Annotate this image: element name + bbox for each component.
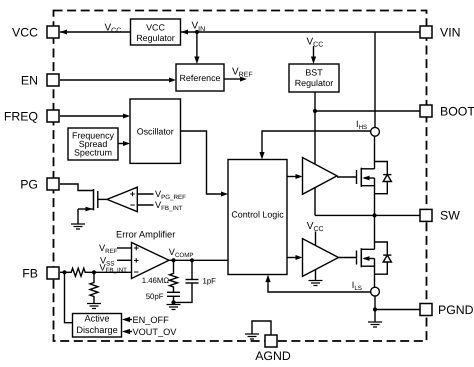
svg-text:VOUT_OV: VOUT_OV: [133, 327, 178, 337]
wire Oscillator to Control Logic: [181, 131, 222, 194]
ground compensation: [167, 305, 181, 310]
wire EN_OFF to Active Discharge: [128, 319, 132, 321]
svg-text:VCC: VCC: [12, 25, 38, 39]
capacitor 1pF: [174, 260, 199, 302]
op-amp HS gate driver: [303, 158, 338, 195]
diode D1 high-side body diode: [375, 162, 392, 194]
svg-text:+: +: [134, 255, 139, 265]
svg-text:VIN: VIN: [440, 25, 461, 39]
wire ILS to PGND: [375, 296, 420, 322]
node PGND junction: [373, 307, 377, 311]
wire VOUT_OV to Active Discharge: [128, 331, 132, 333]
pin SW: [420, 209, 460, 223]
pin BOOT: [420, 104, 474, 118]
svg-text:Spectrum: Spectrum: [74, 148, 112, 158]
wire VCC to BST Regulator: [313, 46, 315, 57]
node FB to Active Discharge junction: [62, 270, 66, 274]
svg-text:AGND: AGND: [255, 349, 291, 363]
op-amp LS gate driver: [303, 239, 339, 277]
diode D2 low-side body diode: [375, 242, 392, 274]
resistor FB lower divider: [90, 272, 98, 303]
svg-text:EN: EN: [21, 73, 38, 87]
wire BST Regulator to BOOT: [315, 92, 420, 111]
transistor Q3 PG open-drain MOSFET: [78, 189, 107, 224]
transistor Q2 low-side MOSFET: [339, 215, 375, 287]
svg-text:BOOT: BOOT: [440, 104, 474, 118]
node VIN junction: [195, 30, 199, 34]
wire VIN junction down to Reference: [196, 32, 198, 57]
wire IHS sense to Control Logic: [262, 131, 371, 153]
wire Reference output VREF: [224, 78, 240, 80]
wire FB to Active Discharge: [65, 272, 74, 322]
node SW junction: [372, 213, 376, 217]
ground power ground: [368, 322, 382, 327]
pin EN: [21, 73, 59, 87]
pin VIN: [420, 25, 461, 39]
svg-text:FB: FB: [22, 266, 38, 280]
svg-text:VCC: VCC: [146, 22, 165, 32]
svg-text:Active: Active: [84, 314, 109, 324]
svg-text:−: −: [134, 267, 139, 277]
Active Discharge block: [73, 314, 122, 338]
wire PG pin to PG MOSFET: [60, 184, 94, 191]
node BOOT junction: [313, 109, 317, 113]
BST Regulator block: [289, 64, 339, 92]
Control Logic block: [228, 160, 287, 275]
wire BOOT rail down to HS driver: [314, 111, 316, 164]
node VCOMP junction 1: [171, 258, 175, 262]
pin VCC: [12, 25, 59, 39]
wire VIN pin to VCC Regulator: [181, 31, 420, 33]
VCC Regulator U1: [131, 19, 181, 45]
svg-text:Control Logic: Control Logic: [231, 209, 284, 219]
svg-text:BST: BST: [305, 67, 323, 77]
ground FB divider: [87, 304, 101, 309]
comparator PG: [107, 187, 137, 212]
svg-text:50pF: 50pF: [146, 292, 164, 301]
Frequency Spread Spectrum block: [68, 128, 118, 160]
current sensor ILS: [371, 287, 380, 296]
wire FSS to Oscillator: [118, 143, 123, 145]
node VCOMP junction 2: [190, 258, 194, 262]
ground AGND: [245, 334, 259, 339]
svg-text:FREQ: FREQ: [4, 109, 38, 123]
node compensation ground junction: [171, 300, 175, 304]
wire PG comparator input VPG_REF: [137, 193, 153, 195]
resistor 1.46Mohm compensation: [170, 260, 178, 288]
Oscillator block: [130, 99, 181, 163]
wire EN pin to Reference: [60, 79, 169, 81]
pin AGND: [255, 335, 291, 363]
svg-text:Reference: Reference: [180, 73, 221, 83]
wire error amp output VCOMP: [169, 259, 228, 261]
wire SW node: [315, 214, 420, 216]
wire HS driver to SW rail: [314, 188, 316, 216]
Reference block: [176, 64, 224, 91]
svg-text:PG: PG: [20, 177, 38, 191]
wire ILS sense to Control Logic: [268, 282, 371, 292]
wire PG comparator input VFB_INT: [137, 204, 153, 206]
wire VIN branch down to IHS sensor: [374, 32, 376, 127]
wire LS driver to ground: [315, 270, 317, 281]
wire FB network: [60, 268, 132, 276]
svg-text:1pF: 1pF: [203, 277, 217, 286]
svg-text:1.46MΩ: 1.46MΩ: [142, 276, 170, 285]
pin PGND: [420, 303, 474, 317]
wire FREQ pin to Oscillator: [60, 115, 123, 117]
IC boundary dashed border: [54, 11, 427, 342]
svg-text:PGND: PGND: [438, 303, 474, 317]
svg-text:Regulator: Regulator: [136, 33, 175, 43]
svg-text:+: +: [134, 243, 139, 253]
wire Control Logic to LS driver: [287, 257, 296, 259]
current sensor IHS: [371, 127, 380, 136]
wire VCC to LS driver: [315, 232, 317, 246]
svg-text:−: −: [130, 200, 135, 210]
pin PG: [20, 177, 59, 191]
svg-text:Oscillator: Oscillator: [137, 126, 174, 136]
ground LS driver: [309, 281, 323, 286]
pin FREQ: [4, 109, 59, 123]
svg-text:+: +: [130, 189, 135, 199]
svg-text:Discharge: Discharge: [76, 325, 117, 335]
node FB divider junction: [92, 270, 96, 274]
wire VCC pin to VCC Regulator: [60, 31, 131, 33]
capacitor 50pF: [167, 289, 180, 303]
ground PG MOSFET source: [71, 224, 85, 229]
op-amp error amplifier: [132, 243, 170, 279]
wire VREF input stub: [117, 247, 132, 249]
svg-text:SW: SW: [440, 209, 460, 223]
wire AGND pin to ground: [252, 321, 271, 335]
wire VSS input stub: [117, 259, 132, 261]
svg-text:Error Amplifier: Error Amplifier: [116, 229, 175, 240]
transistor Q1 high-side MOSFET: [337, 136, 375, 215]
svg-text:Regulator: Regulator: [295, 78, 334, 88]
pin FB: [22, 266, 59, 280]
wire Control Logic to HS driver: [287, 176, 296, 178]
svg-text:EN_OFF: EN_OFF: [133, 315, 170, 325]
